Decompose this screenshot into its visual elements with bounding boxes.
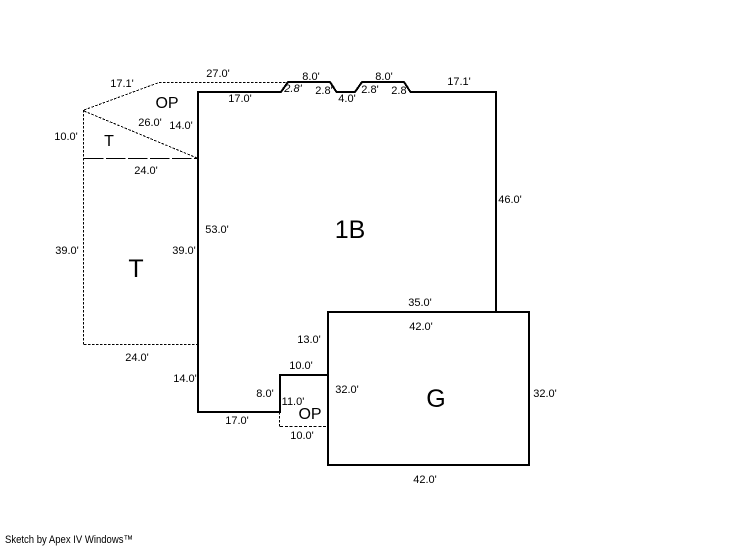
svg-text:8.0': 8.0'	[375, 71, 392, 83]
wire dotted horizontal 24.0 bottom of T	[84, 344, 198, 346]
svg-text:10.0': 10.0'	[289, 360, 313, 372]
svg-text:14.0': 14.0'	[173, 373, 197, 385]
svg-text:G: G	[426, 385, 445, 413]
svg-text:2.8': 2.8'	[361, 84, 378, 96]
svg-text:OP: OP	[155, 95, 178, 112]
svg-text:42.0': 42.0'	[413, 474, 437, 486]
svg-text:35.0': 35.0'	[408, 297, 432, 309]
svg-text:4.0': 4.0'	[338, 93, 355, 105]
svg-text:13.0': 13.0'	[297, 334, 321, 346]
wire dotted vertical OP bottom-left	[279, 412, 281, 427]
svg-text:53.0': 53.0'	[205, 224, 229, 236]
svg-text:32.0': 32.0'	[533, 388, 557, 400]
svg-text:17.1': 17.1'	[110, 78, 134, 90]
svg-text:2.8': 2.8'	[283, 83, 302, 95]
svg-text:42.0': 42.0'	[409, 321, 433, 333]
wire dotted left vertical of T	[83, 110, 85, 345]
svg-text:24.0': 24.0'	[125, 352, 149, 364]
wire G garage outline	[328, 312, 529, 465]
svg-text:Sketch by Apex IV Windows™: Sketch by Apex IV Windows™	[5, 534, 133, 546]
wire dotted diagonal 26.0	[84, 111, 197, 158]
wire dotted diagonal 17.1 top-left	[84, 83, 159, 111]
svg-text:8.0': 8.0'	[302, 71, 319, 83]
svg-text:T: T	[128, 255, 143, 283]
wire dotted horizontal 27.0 top	[159, 82, 288, 84]
svg-text:17.0': 17.0'	[225, 415, 249, 427]
svg-text:8.0': 8.0'	[256, 388, 273, 400]
svg-text:39.0': 39.0'	[55, 245, 79, 257]
svg-text:2.8': 2.8'	[315, 85, 332, 97]
wire dotted horizontal 10.0 OP bottom	[280, 426, 328, 428]
svg-text:1B: 1B	[335, 216, 366, 244]
svg-text:2.8': 2.8'	[391, 85, 408, 97]
svg-text:46.0': 46.0'	[498, 194, 522, 206]
wire 1B outline	[198, 82, 496, 412]
svg-text:OP: OP	[298, 406, 321, 423]
wire dashed horizontal 24.0 upper	[84, 158, 197, 160]
svg-text:10.0': 10.0'	[290, 430, 314, 442]
svg-text:32.0': 32.0'	[335, 384, 359, 396]
svg-text:39.0': 39.0'	[172, 245, 196, 257]
svg-text:14.0': 14.0'	[169, 120, 193, 132]
svg-text:26.0': 26.0'	[138, 117, 162, 129]
svg-text:27.0': 27.0'	[206, 68, 230, 80]
svg-text:10.0': 10.0'	[54, 131, 78, 143]
svg-text:24.0': 24.0'	[134, 165, 158, 177]
svg-text:17.1': 17.1'	[447, 76, 471, 88]
svg-text:17.0': 17.0'	[228, 93, 252, 105]
svg-text:T: T	[104, 133, 114, 150]
